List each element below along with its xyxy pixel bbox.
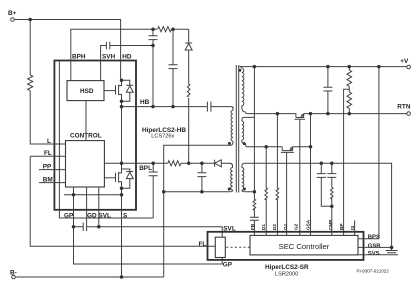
svg-text:G2: G2	[294, 223, 299, 230]
svg-text:SEC Controller: SEC Controller	[279, 242, 330, 251]
svg-text:BPH: BPH	[72, 53, 86, 60]
svg-text:SVS: SVS	[368, 251, 380, 257]
svg-text:SVH: SVH	[102, 53, 116, 60]
svg-text:PI-9307-021022: PI-9307-021022	[357, 269, 390, 274]
svg-text:FL: FL	[199, 241, 207, 248]
svg-text:BP: BP	[339, 223, 344, 230]
svg-text:D1: D1	[261, 224, 266, 230]
svg-text:HiperLCS2-SR: HiperLCS2-SR	[265, 264, 309, 271]
svg-text:SVL: SVL	[223, 225, 236, 232]
svg-text:D2: D2	[272, 224, 277, 230]
svg-text:G1: G1	[283, 223, 288, 230]
svg-text:GP: GP	[223, 261, 233, 268]
svg-text:HD: HD	[122, 53, 132, 60]
svg-text:FB: FB	[250, 223, 255, 230]
svg-text:GSB: GSB	[368, 243, 381, 249]
svg-text:B+: B+	[8, 10, 17, 17]
svg-text:GSA: GSA	[305, 219, 310, 230]
svg-text:LSR2000: LSR2000	[275, 272, 298, 278]
svg-text:BPS: BPS	[368, 235, 380, 241]
svg-text:HSD: HSD	[80, 88, 94, 95]
svg-text:+V: +V	[400, 58, 409, 65]
svg-text:RTN: RTN	[397, 103, 411, 110]
svg-text:LCS726x: LCS726x	[151, 134, 174, 140]
svg-text:CMP: CMP	[328, 220, 333, 230]
svg-text:HB: HB	[140, 99, 150, 106]
svg-text:IS: IS	[350, 226, 355, 230]
svg-text:BPL: BPL	[139, 165, 152, 172]
